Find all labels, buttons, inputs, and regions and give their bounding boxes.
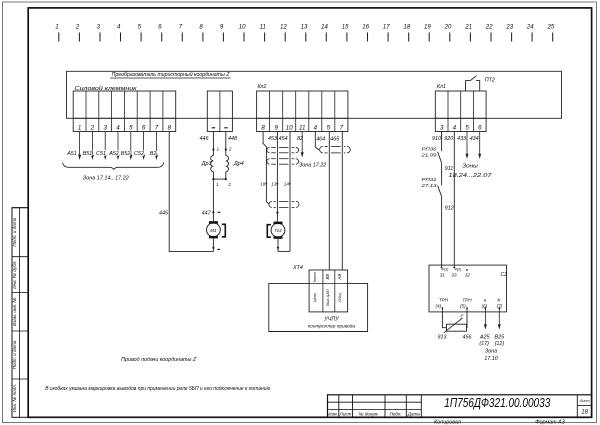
svg-text:Инв. № подл.: Инв. № подл. <box>12 384 17 413</box>
svg-text:С51: С51 <box>96 151 106 157</box>
svg-text:Зона 17.22: Зона 17.22 <box>299 163 326 169</box>
wire below Dr3 <box>212 172 214 179</box>
node Tg3 bottom <box>277 247 279 249</box>
svg-text:1: 1 <box>216 182 219 187</box>
svg-text:4(1): 4(1) <box>442 267 450 272</box>
svg-text:1П756ДФ321.00.00033: 1П756ДФ321.00.00033 <box>444 395 551 410</box>
motor M1 <box>207 221 226 251</box>
svg-text:С2: С2 <box>501 272 508 278</box>
svg-text:Зоны: Зоны <box>462 164 478 170</box>
svg-text:Др3: Др3 <box>201 161 212 167</box>
PT2 switch <box>466 76 495 91</box>
svg-text:6: 6 <box>478 124 482 131</box>
svg-text:t°: t° <box>461 314 464 319</box>
svg-text:Привод подачи координаты Z: Привод подачи координаты Z <box>121 357 197 363</box>
left margin rotated cells <box>12 208 28 418</box>
thermistor R <box>447 324 467 331</box>
wire return loop <box>278 250 290 252</box>
svg-text:РП36: РП36 <box>422 147 438 152</box>
terminal block 446/448 <box>200 91 238 142</box>
joining wire <box>213 178 225 180</box>
svg-text:3: 3 <box>440 124 444 131</box>
svg-text:18: 18 <box>260 181 266 186</box>
converter title underline <box>110 77 231 79</box>
svg-text:Подп. и дата: Подп. и дата <box>12 340 17 369</box>
connector XT4 table <box>309 270 348 312</box>
choke circuit <box>201 132 244 188</box>
svg-text:9: 9 <box>274 124 278 131</box>
svg-text:Тг3: Тг3 <box>274 228 282 233</box>
svg-text:Взам. инв. №: Взам. инв. № <box>12 298 17 326</box>
power terminal strip XT1 <box>73 91 176 132</box>
wire to choke Dr3 <box>212 132 214 156</box>
svg-text:1: 1 <box>55 24 58 31</box>
svg-text:21: 21 <box>464 24 472 31</box>
svg-text:20: 20 <box>444 24 452 31</box>
svg-text:Кл1: Кл1 <box>437 84 446 90</box>
terminal block Kl2 <box>257 91 348 132</box>
wire 913 <box>442 308 446 328</box>
svg-text:ХТ4: ХТ4 <box>292 265 303 271</box>
svg-text:В скобках указана маркировка в: В скобках указана маркировка выводов при… <box>45 386 270 392</box>
node pin 2 bottom <box>225 178 227 180</box>
svg-text:Дата: Дата <box>407 411 421 416</box>
wire В2 <box>155 132 157 156</box>
svg-text:82: 82 <box>297 136 303 142</box>
cable shield oval 1 <box>267 147 270 152</box>
svg-text:445: 445 <box>159 211 169 217</box>
svg-text:18.24...22.07: 18.24...22.07 <box>449 173 493 179</box>
svg-text:18: 18 <box>581 410 588 416</box>
svg-text:УЧПУ: УЧПУ <box>323 316 339 322</box>
node pin 1 bottom <box>212 178 214 180</box>
svg-text:16: 16 <box>362 24 369 31</box>
wire from terminal 10 <box>289 132 291 252</box>
wire С52 <box>143 132 145 156</box>
svg-text:ПТ2: ПТ2 <box>485 78 495 84</box>
svg-text:Копировал: Копировал <box>434 419 461 425</box>
title block form 2a <box>328 395 592 425</box>
wire 454 <box>276 132 278 222</box>
svg-text:Др4: Др4 <box>233 161 244 167</box>
wire С51 <box>104 132 106 156</box>
svg-text:А8: А8 <box>337 273 342 280</box>
wire 456 <box>466 308 469 328</box>
svg-text:Общ: Общ <box>337 293 342 302</box>
cable shield oval 2 <box>267 159 270 165</box>
svg-text:465: 465 <box>330 137 340 143</box>
wire 465 <box>328 132 330 271</box>
choke Dr3 <box>211 156 214 172</box>
controller box UCHPU <box>269 283 368 331</box>
svg-text:4(2): 4(2) <box>455 267 463 272</box>
svg-text:453: 453 <box>268 136 277 142</box>
svg-text:С52: С52 <box>134 151 144 157</box>
svg-text:М1: М1 <box>210 228 217 233</box>
zone brace under power wires <box>63 163 164 170</box>
wire from terminal 7 <box>341 132 343 271</box>
svg-text:А51: А51 <box>66 151 77 157</box>
wire 910 <box>441 132 443 152</box>
svg-text:1: 1 <box>217 147 220 152</box>
svg-text:(4): (4) <box>435 304 441 309</box>
svg-text:912: 912 <box>445 206 454 212</box>
relay contact RP36 <box>438 152 442 163</box>
motor M1 <box>207 223 221 237</box>
svg-text:4: 4 <box>116 124 120 131</box>
pin 32 <box>466 269 468 271</box>
svg-text:10: 10 <box>286 124 293 131</box>
svg-text:3: 3 <box>103 124 107 131</box>
svg-text:446: 446 <box>200 136 209 142</box>
svg-text:13: 13 <box>301 24 308 31</box>
wire 445 from terminal 8 <box>169 132 213 252</box>
svg-text:32: 32 <box>465 273 471 278</box>
Kl1 wires and relay contacts <box>420 132 493 268</box>
wire 453 shield drain <box>263 132 269 205</box>
wire 911 <box>441 163 443 185</box>
terminal block Kl1 <box>435 91 486 132</box>
svg-text:911: 911 <box>445 166 454 172</box>
svg-text:1: 1 <box>78 124 81 131</box>
svg-text:17: 17 <box>383 24 390 31</box>
wire В51 <box>91 132 93 156</box>
svg-text:22: 22 <box>485 24 493 31</box>
node motor minus terminal <box>212 247 214 249</box>
motor bracket <box>222 224 226 237</box>
node pin 2 top <box>225 148 227 150</box>
svg-text:Инв. № дубл.: Инв. № дубл. <box>12 260 17 288</box>
svg-text:Подп.: Подп. <box>389 411 401 416</box>
cable shield oval right <box>320 146 323 153</box>
svg-text:7: 7 <box>340 124 344 131</box>
wire Tg3 bottom <box>277 239 279 252</box>
svg-text:Конт.: Конт. <box>312 271 317 282</box>
svg-text:14: 14 <box>321 24 328 31</box>
title block <box>328 395 592 418</box>
svg-text:Изм.: Изм. <box>328 411 338 416</box>
svg-text:2: 2 <box>75 24 80 31</box>
svg-text:5: 5 <box>327 124 331 131</box>
block S2 <box>429 265 507 312</box>
wire 447 to motor <box>202 179 221 221</box>
svg-text:Лист: Лист <box>579 398 591 403</box>
svg-text:31: 31 <box>440 273 446 278</box>
svg-text:Подп. и дата: Подп. и дата <box>12 217 17 246</box>
svg-text:Зона: Зона <box>485 349 497 355</box>
svg-text:24: 24 <box>526 24 534 31</box>
svg-text:В8: В8 <box>325 273 330 279</box>
wire 464 shield drain <box>315 132 319 151</box>
Kl2 shield ovals and wires <box>260 132 326 252</box>
svg-text:454: 454 <box>279 136 288 142</box>
svg-text:2: 2 <box>228 147 232 152</box>
svg-text:18: 18 <box>404 24 411 31</box>
motor brush bottom <box>209 236 218 239</box>
svg-text:8: 8 <box>261 124 265 131</box>
switch PT2 <box>466 81 471 91</box>
svg-text:12: 12 <box>280 24 287 31</box>
tacho generator Tg3 <box>271 223 285 237</box>
wire to choke Dr4 <box>225 132 227 156</box>
block S2 with thermistor <box>429 265 507 362</box>
svg-text:21.09: 21.09 <box>420 153 437 158</box>
svg-text:РП31: РП31 <box>422 177 438 182</box>
svg-text:Цепь: Цепь <box>312 293 317 302</box>
svg-text:19: 19 <box>424 24 431 31</box>
svg-text:5: 5 <box>129 124 133 131</box>
wire А51 <box>79 132 81 156</box>
svg-text:Преобразователь тиристорный ко: Преобразователь тиристорный координаты Z <box>112 71 231 78</box>
wire 82 with arrow <box>301 132 303 153</box>
node pin 1 top <box>212 148 214 150</box>
svg-text:920: 920 <box>444 136 453 142</box>
svg-text:№ докум.: № докум. <box>359 411 379 416</box>
Tg3 brush top <box>274 222 283 225</box>
svg-text:434: 434 <box>470 136 479 142</box>
column ruler numbers 1-25 <box>55 24 555 42</box>
svg-text:ТРН: ТРН <box>439 298 449 303</box>
svg-text:b: b <box>498 298 501 303</box>
wire 447 <box>212 179 214 221</box>
svg-text:В2: В2 <box>150 151 157 157</box>
UCHPU controller box <box>269 283 368 331</box>
svg-text:4: 4 <box>453 124 457 131</box>
wire B25 with arrow <box>498 308 500 324</box>
svg-text:В51: В51 <box>83 151 93 157</box>
choke Dr4 <box>226 156 229 172</box>
svg-text:ТРН: ТРН <box>462 298 472 303</box>
svg-text:Лист: Лист <box>339 411 352 416</box>
Tg3 brush bottom <box>274 236 283 239</box>
svg-text:В52: В52 <box>121 151 131 157</box>
svg-text:6: 6 <box>158 24 162 31</box>
svg-text:А52: А52 <box>108 151 119 157</box>
svg-text:7: 7 <box>155 124 159 131</box>
svg-text:(17): (17) <box>479 341 489 347</box>
right cable oval and wires 464/465 <box>315 132 350 271</box>
connector XT4 table <box>292 265 348 312</box>
svg-text:2: 2 <box>227 182 231 187</box>
svg-text:11: 11 <box>260 24 266 31</box>
svg-text:23: 23 <box>505 24 513 31</box>
svg-text:В25: В25 <box>495 335 506 341</box>
svg-text:Зона 17.14...17.22: Зона 17.14...17.22 <box>83 176 129 182</box>
wire 433 with arrow <box>466 132 468 155</box>
wire 912 <box>441 197 443 268</box>
svg-text:8: 8 <box>168 124 172 131</box>
svg-text:33: 33 <box>451 273 457 278</box>
svg-text:2: 2 <box>90 124 95 131</box>
wire А52 <box>117 132 119 156</box>
svg-text:456: 456 <box>463 335 472 341</box>
svg-text:А25: А25 <box>479 335 491 341</box>
svg-text:а: а <box>484 298 487 303</box>
svg-text:448: 448 <box>228 136 237 142</box>
wire below Dr4 <box>225 172 227 179</box>
svg-text:913: 913 <box>438 335 447 341</box>
svg-text:27.13: 27.13 <box>420 183 437 188</box>
svg-text:4: 4 <box>314 124 318 131</box>
cable shield oval 3 <box>269 201 272 207</box>
svg-text:Вых ЦАП: Вых ЦАП <box>325 289 330 306</box>
svg-text:Формат А3: Формат А3 <box>535 419 565 425</box>
svg-text:(5): (5) <box>460 304 466 309</box>
node on wire 454 <box>276 212 278 214</box>
svg-text:11: 11 <box>299 124 305 131</box>
Tg3 bracket <box>267 225 271 238</box>
node motor plus terminal <box>212 211 214 213</box>
wire motor minus <box>212 238 214 251</box>
svg-text:5: 5 <box>465 124 469 131</box>
svg-text:10: 10 <box>239 24 246 31</box>
svg-text:Кл2: Кл2 <box>258 84 267 90</box>
relay contact RP31 <box>438 186 442 197</box>
svg-text:4: 4 <box>117 24 121 31</box>
svg-text:447: 447 <box>202 211 212 217</box>
motor brush top <box>209 221 218 224</box>
svg-text:3: 3 <box>97 24 101 31</box>
wires from power terminals with arrows <box>66 132 158 161</box>
svg-text:15: 15 <box>342 24 349 31</box>
svg-text:25: 25 <box>547 24 555 31</box>
svg-text:17.10: 17.10 <box>484 356 498 362</box>
svg-text:(12): (12) <box>495 341 505 347</box>
wire 434 with arrow <box>479 132 481 155</box>
svg-text:910: 910 <box>432 136 441 142</box>
svg-text:433: 433 <box>457 136 466 142</box>
svg-text:13: 13 <box>271 181 277 186</box>
wire A25 with arrow <box>484 308 486 324</box>
tacho generator Tg3 <box>267 222 290 252</box>
converter outline box <box>67 71 562 118</box>
svg-text:464: 464 <box>316 137 325 143</box>
wire В52 <box>130 132 132 156</box>
svg-text:контроллер привода: контроллер привода <box>308 324 356 330</box>
svg-text:6: 6 <box>142 124 146 131</box>
svg-text:14: 14 <box>284 181 290 186</box>
wire 920 <box>453 132 455 268</box>
